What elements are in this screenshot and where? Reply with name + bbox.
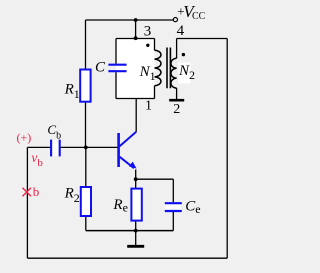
wire: emitter node to Ce branch — [136, 178, 174, 180]
resistor R2 — [81, 187, 91, 216]
ground (emitter bypass) — [127, 245, 144, 248]
inductor N1 winding — [155, 50, 161, 85]
wire: input to Cb — [27, 146, 50, 148]
svg-text:C: C — [95, 60, 106, 76]
wire: +VCC top rail — [86, 19, 174, 21]
svg-text:(+): (+) — [17, 131, 32, 145]
wire: top-right feedback run — [177, 38, 228, 40]
wire: Re leads — [135, 179, 137, 230]
wire: feedback bottom rail — [27, 257, 227, 259]
wire: feedback left rail — [26, 147, 28, 258]
wire: tank left edge (through C) — [115, 39, 117, 99]
terminal: +VCC open circle — [173, 18, 177, 22]
LC tank white panel — [116, 39, 155, 99]
wire: tank bottom edge — [116, 98, 155, 100]
wire: tank top edge — [116, 38, 155, 40]
wire: collector lead — [135, 99, 137, 132]
wire: Ce branch upper — [172, 179, 174, 202]
wire: base lead — [61, 146, 118, 148]
junction dot: emitter node — [134, 177, 138, 181]
svg-text:3: 3 — [144, 23, 152, 39]
wire: emitter ground rail — [86, 230, 174, 232]
capacitor Cb — [51, 140, 60, 157]
wire: N2 ground lead — [176, 88, 178, 99]
capacitor Ce — [165, 203, 182, 211]
capacitor C — [108, 65, 126, 72]
resistor Re — [131, 189, 141, 221]
inductor N2 winding — [171, 58, 177, 88]
junction dot: ground rail — [134, 229, 138, 233]
svg-text:4: 4 — [177, 23, 185, 39]
N1 polarity dot — [146, 44, 149, 47]
wire: emitter lead — [135, 170, 137, 180]
junction dot: base node — [84, 146, 88, 150]
wire: tank right edge stubs (N1 leads) — [154, 39, 156, 99]
resistor R1 — [80, 70, 90, 102]
wire: R1 bias column — [85, 20, 87, 147]
N2 polarity dot — [182, 53, 185, 56]
svg-text:b: b — [33, 184, 40, 199]
ground (transformer secondary) — [169, 99, 184, 102]
label N2 — [178, 63, 195, 84]
junction dot: feed at tank top edge — [134, 36, 138, 40]
junction dot: tank feed on VCC rail — [134, 18, 138, 22]
transformer core — [167, 48, 170, 89]
wire: ground stub — [135, 231, 137, 246]
svg-text:CC: CC — [192, 11, 206, 22]
wire: N2 top lead — [176, 39, 178, 59]
node b marker (×) — [23, 188, 32, 197]
wire: R2 column — [85, 147, 87, 230]
label +VCC — [177, 2, 205, 22]
svg-text:Ce: Ce — [185, 199, 200, 216]
svg-text:1: 1 — [145, 99, 152, 114]
wire: Ce branch lower — [172, 212, 174, 231]
transistor Q (NPN BJT) — [119, 132, 137, 169]
svg-text:2: 2 — [173, 102, 180, 117]
wire: feedback right rail — [226, 39, 228, 259]
wire: tank feed drop — [135, 20, 137, 39]
